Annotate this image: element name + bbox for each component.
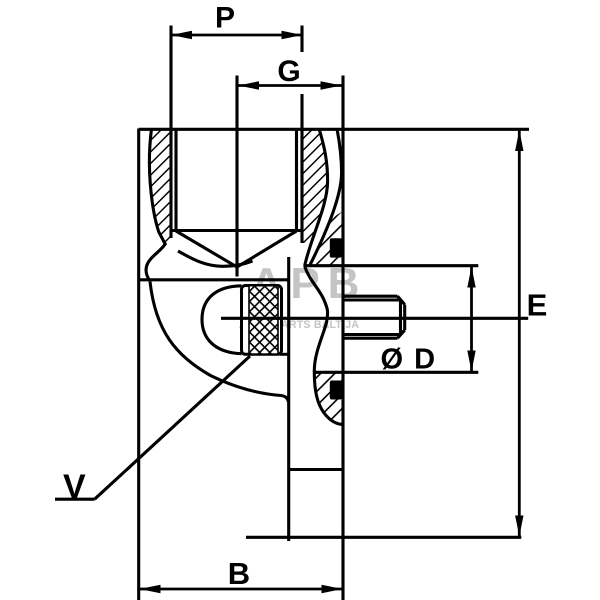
boss bottom line / OD extension bbox=[315, 371, 479, 374]
dimension B line bbox=[140, 588, 343, 591]
dimension OD line bbox=[470, 267, 473, 372]
hatch left thread band bbox=[149, 129, 171, 245]
stem minor top bbox=[343, 298, 401, 301]
cavity wall bbox=[287, 257, 290, 541]
svg-text:G: G bbox=[277, 55, 300, 88]
V leader line bbox=[95, 356, 250, 499]
stem chamfer start vertical bbox=[399, 300, 402, 335]
thread end line bbox=[172, 229, 302, 232]
filter mesh element V bbox=[242, 286, 282, 355]
svg-text:B: B bbox=[228, 556, 250, 591]
boss top line / OD extension bbox=[304, 264, 478, 267]
thread minor left bbox=[174, 129, 177, 232]
thread major right lower bbox=[300, 94, 303, 243]
dimension G line bbox=[238, 84, 342, 87]
flange S-profile lower bbox=[305, 266, 343, 425]
part bottom / E extension bbox=[246, 536, 521, 539]
stem chamfer top bbox=[398, 296, 405, 304]
dimension P line bbox=[171, 34, 303, 37]
stem major top bbox=[343, 295, 398, 298]
thread minor right bbox=[295, 129, 298, 232]
svg-text:E: E bbox=[527, 288, 548, 323]
dome cap of filter bbox=[202, 286, 242, 354]
flange step line bbox=[289, 468, 343, 471]
thread runout fishtail bbox=[178, 251, 253, 266]
V underline bbox=[55, 498, 95, 501]
part centerline bbox=[221, 317, 528, 320]
o-ring seal upper bbox=[330, 238, 342, 257]
left band outer boundary bbox=[146, 129, 165, 281]
bore centerline / G extension bbox=[235, 76, 238, 277]
stem chamfer bottom bbox=[398, 330, 405, 338]
ledge line bbox=[139, 278, 289, 281]
dimension lines with arrows bbox=[140, 31, 524, 593]
stem end face bbox=[403, 305, 406, 331]
outer profile curve B bbox=[310, 129, 342, 266]
svg-text:V: V bbox=[63, 468, 86, 506]
body top edge with E extension bbox=[139, 128, 529, 131]
bowl arc bbox=[150, 282, 289, 403]
outer profile curve A bbox=[305, 129, 328, 266]
drill cone right bbox=[237, 231, 296, 267]
o-ring seal lower bbox=[330, 381, 342, 400]
svg-text:P: P bbox=[215, 2, 235, 35]
stem minor bottom bbox=[343, 333, 401, 336]
thread major right / P extension upper bbox=[300, 26, 303, 53]
thread major left / P extension bbox=[169, 26, 172, 239]
hatch wedge upper seal bbox=[309, 211, 343, 266]
flange right face / G+B extension bbox=[341, 76, 344, 600]
svg-text:Ø D: Ø D bbox=[380, 344, 436, 376]
hatch wedge lower seal bbox=[314, 371, 343, 425]
dimension E line bbox=[518, 130, 521, 537]
hatch right thread band bbox=[302, 129, 328, 243]
stem major bottom bbox=[343, 337, 398, 340]
drill cone left bbox=[176, 231, 237, 267]
body left edge / B extension bbox=[137, 129, 140, 600]
